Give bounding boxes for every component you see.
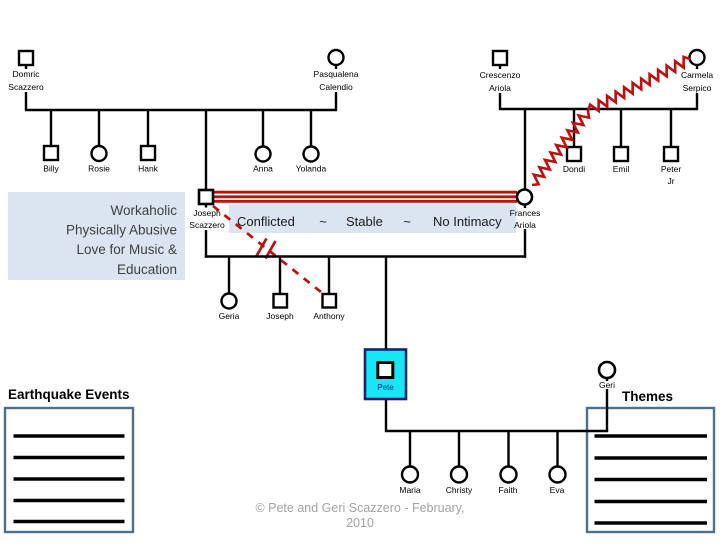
svg-text:~: ~: [319, 214, 327, 229]
wire Pete below box: [385, 399, 387, 431]
wire Domric stub: [25, 64, 27, 69]
person Maria: [399, 467, 421, 496]
wire marriage line Pete-Geri: [385, 430, 608, 432]
wire Pasqualena drop: [335, 92, 337, 110]
person Hank: [138, 146, 159, 174]
wire Domric drop: [25, 92, 27, 110]
person Faith: [499, 467, 518, 496]
wire Geria drop: [228, 257, 230, 294]
svg-text:Joseph: Joseph: [193, 208, 221, 218]
wire Joseph stub below square: [205, 204, 207, 208]
person Anthony: [313, 294, 345, 321]
legend box relationship key: [229, 205, 516, 233]
wire Peter Jr drop: [670, 109, 672, 147]
wire Joseph Scazzero drop from parents: [205, 110, 207, 190]
svg-text:Physically Abusive: Physically Abusive: [66, 223, 177, 238]
person Christy: [446, 467, 473, 496]
svg-text:Geri: Geri: [599, 380, 615, 390]
svg-text:Christy: Christy: [446, 485, 473, 495]
wire Geri drop: [606, 389, 608, 431]
wire Christy drop: [458, 431, 460, 467]
wire Geri stub: [606, 378, 608, 381]
notes box Earthquake Events: [5, 408, 133, 532]
svg-text:Billy: Billy: [43, 164, 59, 174]
svg-text:Workaholic: Workaholic: [110, 203, 177, 218]
svg-text:No Intimacy: No Intimacy: [433, 214, 502, 229]
svg-text:Hank: Hank: [138, 164, 159, 174]
person Pete highlighted: [365, 350, 406, 400]
wire Frances drop from parents: [524, 109, 526, 190]
wire Carmela drop: [696, 93, 698, 109]
person Domric Scazzero: [8, 51, 44, 92]
cutoff dashed line Joseph to Anthony: [213, 206, 321, 292]
svg-text:© Pete and Geri Scazzero - Feb: © Pete and Geri Scazzero - February,: [255, 501, 464, 515]
wire Joseph down to children line: [205, 230, 207, 258]
legend box Workaholic: [8, 192, 185, 280]
svg-text:2010: 2010: [346, 516, 374, 530]
svg-text:Scazzero: Scazzero: [189, 220, 225, 230]
person Emil: [613, 147, 630, 174]
copyright: [255, 501, 464, 530]
svg-text:Domric: Domric: [13, 69, 41, 79]
person Billy: [43, 146, 59, 174]
person Geri: [599, 362, 615, 390]
svg-text:Education: Education: [117, 262, 177, 277]
svg-text:Yolanda: Yolanda: [296, 164, 327, 174]
svg-text:Themes: Themes: [622, 389, 673, 404]
wire Crescenzo drop: [499, 93, 501, 109]
svg-text:Emil: Emil: [613, 164, 630, 174]
cutoff slash marks: [257, 239, 276, 259]
wire Anthony drop: [328, 257, 330, 295]
wire Crescenzo stub: [499, 64, 501, 69]
person Frances Ariola: [510, 190, 541, 231]
wire Rosie drop: [98, 110, 100, 146]
svg-text:Pasqualena: Pasqualena: [314, 69, 359, 79]
wire Maria drop: [409, 431, 411, 467]
wire Hank drop: [147, 110, 149, 146]
person Joseph Scazzero: [189, 190, 225, 230]
wire Billy drop: [50, 110, 52, 146]
person Crescenzo Ariola: [480, 51, 521, 93]
wire Pete drop: [385, 257, 387, 350]
svg-text:Conflicted: Conflicted: [237, 214, 295, 229]
svg-text:Serpico: Serpico: [683, 83, 712, 93]
svg-text:Maria: Maria: [399, 485, 421, 495]
wire marriage line Crescenzo-Carmela: [499, 108, 698, 110]
person Peter Jr: [661, 147, 681, 186]
wire children line Joseph-Frances family: [205, 255, 526, 257]
conflict lines Joseph-Frances (triple red): [214, 192, 518, 201]
svg-text:Rosie: Rosie: [88, 164, 110, 174]
person Carmela Serpico: [681, 50, 713, 93]
svg-text:Geria: Geria: [219, 311, 240, 321]
svg-text:Joseph: Joseph: [266, 311, 294, 321]
svg-text:Ariola: Ariola: [489, 83, 511, 93]
svg-text:Earthquake Events: Earthquake Events: [8, 387, 130, 402]
person Anna: [253, 147, 273, 174]
notes box Themes: [587, 408, 714, 532]
svg-text:Faith: Faith: [499, 485, 518, 495]
svg-text:Carmela: Carmela: [681, 70, 713, 80]
wire Pasqualena stub: [335, 64, 337, 69]
zigzag fused line Carmela-Frances: [532, 57, 690, 185]
svg-text:Pete: Pete: [377, 383, 394, 392]
person Eva: [550, 467, 566, 496]
person Rosie: [88, 146, 110, 174]
svg-text:~: ~: [403, 214, 411, 229]
svg-text:Jr: Jr: [667, 176, 674, 186]
svg-text:Anna: Anna: [253, 164, 273, 174]
wire Joseph Jr drop: [279, 257, 281, 295]
wire Frances stub below circle: [524, 205, 526, 209]
wire Faith drop: [507, 431, 509, 467]
wire marriage line Domric-Pasqualena: [25, 109, 337, 111]
svg-text:Anthony: Anthony: [313, 311, 345, 321]
svg-text:Calendio: Calendio: [319, 82, 353, 92]
wire Dondi drop: [573, 109, 575, 147]
wire Anna drop: [262, 110, 264, 147]
person Dondi: [563, 147, 585, 174]
person Pasqualena Calendio: [314, 50, 359, 92]
svg-text:Ariola: Ariola: [514, 220, 536, 230]
svg-text:Crescenzo: Crescenzo: [480, 70, 521, 80]
svg-text:Scazzero: Scazzero: [8, 82, 44, 92]
svg-text:Love for Music &: Love for Music &: [76, 242, 177, 257]
wire Yolanda drop: [310, 110, 312, 147]
person Yolanda: [296, 147, 327, 174]
person Geria: [219, 294, 240, 322]
svg-text:Stable: Stable: [346, 214, 383, 229]
svg-text:Eva: Eva: [550, 485, 565, 495]
svg-text:Dondi: Dondi: [563, 164, 585, 174]
svg-text:Frances: Frances: [510, 208, 541, 218]
svg-text:Peter: Peter: [661, 164, 681, 174]
wire Emil drop: [620, 109, 622, 147]
wire Eva drop: [556, 431, 558, 467]
wire Carmela stub: [696, 64, 698, 69]
person Joseph Jr: [266, 294, 294, 321]
wire Frances down to children line: [524, 229, 526, 258]
